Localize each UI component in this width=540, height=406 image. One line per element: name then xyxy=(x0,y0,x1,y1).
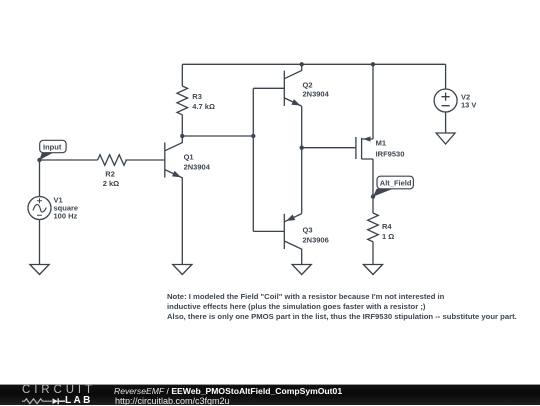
svg-text:IRF9530: IRF9530 xyxy=(376,150,405,159)
svg-text:2 kΩ: 2 kΩ xyxy=(103,179,119,188)
svg-text:R2: R2 xyxy=(105,170,115,179)
svg-text:13 V: 13 V xyxy=(461,101,476,110)
svg-text:Q2: Q2 xyxy=(303,81,313,90)
svg-text:Q3: Q3 xyxy=(303,226,313,235)
svg-text:2N3904: 2N3904 xyxy=(303,90,330,99)
svg-text:1 Ω: 1 Ω xyxy=(382,232,394,241)
svg-text:R3: R3 xyxy=(192,92,202,101)
svg-text:4.7 kΩ: 4.7 kΩ xyxy=(192,102,215,111)
svg-text:2N3906: 2N3906 xyxy=(303,236,329,245)
svg-text:R4: R4 xyxy=(382,222,392,231)
svg-text:Input: Input xyxy=(43,143,62,152)
svg-text:100 Hz: 100 Hz xyxy=(54,212,78,221)
svg-text:Alt_Field: Alt_Field xyxy=(380,179,412,188)
svg-text:Q1: Q1 xyxy=(184,153,194,162)
svg-text:2N3904: 2N3904 xyxy=(184,163,211,172)
svg-text:M1: M1 xyxy=(376,139,386,148)
